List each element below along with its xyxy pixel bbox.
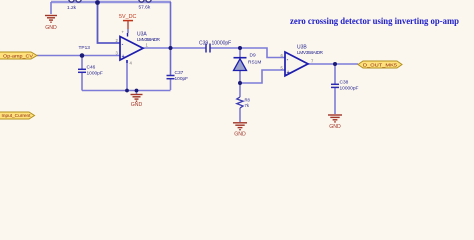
svg-text:LMV358AIDR: LMV358AIDR bbox=[137, 37, 161, 43]
svg-text:Input_Current: Input_Current bbox=[2, 113, 32, 118]
svg-text:+: + bbox=[287, 70, 290, 76]
svg-text:100pF: 100pF bbox=[175, 76, 189, 82]
svg-text:GND: GND bbox=[234, 132, 246, 138]
svg-text:RS1M: RS1M bbox=[248, 60, 261, 66]
svg-text:C39: C39 bbox=[199, 41, 208, 47]
svg-text:1.2k: 1.2k bbox=[67, 5, 77, 11]
svg-text:U3A: U3A bbox=[137, 32, 147, 38]
svg-text:1000pF: 1000pF bbox=[87, 71, 103, 77]
svg-text:C46: C46 bbox=[87, 65, 96, 71]
svg-text:zero crossing detector using i: zero crossing detector using inverting o… bbox=[290, 17, 459, 27]
svg-text:GND: GND bbox=[45, 25, 57, 31]
svg-text:57.6k: 57.6k bbox=[139, 5, 151, 11]
svg-text:GND: GND bbox=[329, 124, 341, 130]
svg-text:GND: GND bbox=[131, 102, 143, 108]
svg-text:D9: D9 bbox=[250, 53, 256, 59]
svg-text:+: + bbox=[122, 54, 125, 60]
svg-text:U3B: U3B bbox=[297, 45, 307, 51]
svg-text:R8: R8 bbox=[245, 98, 251, 103]
svg-text:10000pF: 10000pF bbox=[212, 41, 232, 47]
svg-text:Op-amp_CV: Op-amp_CV bbox=[3, 53, 34, 58]
svg-text:D_OUT_MK5: D_OUT_MK5 bbox=[363, 62, 397, 68]
svg-text:C38: C38 bbox=[340, 80, 349, 86]
svg-text:5V_DC: 5V_DC bbox=[119, 14, 136, 20]
svg-text:LMV358AIDR: LMV358AIDR bbox=[297, 50, 324, 56]
svg-text:C37: C37 bbox=[175, 70, 184, 76]
svg-text:10000pF: 10000pF bbox=[340, 86, 359, 92]
svg-text:TP13: TP13 bbox=[79, 45, 91, 51]
